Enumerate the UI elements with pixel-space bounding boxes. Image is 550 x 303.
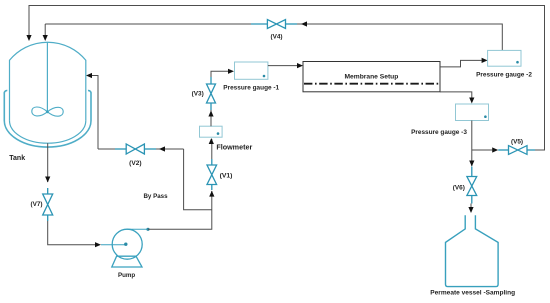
wire tank bottom outlet to V7 [47,143,49,182]
wire arrow into membrane (pointing right) [297,63,303,68]
wire pressure gauge 1 to membrane [268,65,297,67]
wire V6 to permeate vessel [470,204,472,208]
valve V4 [251,20,297,29]
svg-text:(V5): (V5) [511,138,523,145]
wire membrane to pressure gauge 2 [440,60,482,67]
svg-text:(V7): (V7) [30,201,42,208]
pressure gauge PG1 [235,62,268,79]
wire V1 to flowmeter [211,139,213,159]
wire arrow into pump (pointing right) [95,242,101,247]
wire top return loop (V5 outlet to tank) [29,6,545,151]
tank T1 [4,42,91,147]
svg-text:By Pass: By Pass [143,193,168,200]
svg-text:Permeate vessel -Sampling: Permeate vessel -Sampling [430,289,515,296]
wire arrow into pressure gauge 3 (pointing down) [469,98,474,104]
wire pressure gauge 3 down to junction [471,121,473,151]
svg-text:Pressure gauge -3: Pressure gauge -3 [411,129,467,136]
membrane setup M1 [303,62,440,92]
wire arrow into flowmeter (pointing up) [209,138,214,144]
agitator propeller [32,107,63,116]
wire arrow on V2 line (pointing left) [159,146,165,151]
svg-text:Pump: Pump [118,272,135,279]
pump center dot [124,243,127,246]
wire junction to V5 [472,149,492,151]
agitator shaft [46,42,48,112]
wire tank side inlet from V2 [92,76,98,150]
wire arrow above V6 (pointing down) [469,161,474,167]
svg-text:Pressure gauge -2: Pressure gauge -2 [476,71,532,78]
flowmeter FM1 [200,126,223,137]
wire flowmeter to V3 [210,110,212,126]
valve V7 [43,188,53,221]
permeate vessel PV1 [446,215,499,286]
wire arrow into tank top (left) [26,35,31,41]
pressure gauge PG3 [456,104,489,121]
svg-text:(V6): (V6) [453,185,465,192]
valve V3 [207,77,216,110]
svg-text:(V3): (V3) [192,90,204,97]
pressure gauge PG2 [488,50,521,66]
svg-text:(V2): (V2) [129,160,141,167]
node pump outlet dot [146,228,149,231]
wire membrane to pressure gauge 3 [440,92,472,98]
svg-text:(V4): (V4) [270,34,282,41]
wire arrow on V4 line (pointing left) [301,21,307,26]
wire arrow above V7 (pointing down) [45,177,50,183]
wire junction down to V6 [471,150,473,166]
wire arrow into pressure gauge 1 (pointing right) [228,69,234,74]
wire bypass vertical and to riser [184,149,212,210]
wire pump inlet shaft [101,244,127,246]
svg-text:Flowmeter: Flowmeter [216,143,252,152]
svg-text:(V1): (V1) [220,172,233,179]
wire arrow into tank top (right) [43,35,48,41]
wire V3 to pressure gauge 1 [211,71,228,77]
valve V1 [207,159,217,190]
svg-text:Pressure gauge -1: Pressure gauge -1 [223,84,279,91]
wire pump outlet [127,228,148,230]
wire arrow above flowmeter (pointing up) [208,111,213,117]
wire arrow into V5 (pointing right) [492,147,498,152]
wire V7 to pump inlet [48,221,95,245]
wire pump outlet to riser [148,191,212,229]
pump P1 [112,229,142,267]
svg-text:Membrane Setup: Membrane Setup [344,74,398,81]
wire arrow into pressure gauge 2 (pointing right) [482,58,488,63]
wire arrow into tank right side [86,73,92,78]
wire V4 return line (PG2 top to tank) [45,24,502,50]
agitator hub dot [46,110,49,113]
wire arrow into vessel (pointing down) [468,207,473,213]
svg-text:Tank: Tank [9,155,25,162]
wire arrow below V1 (pointing up) [209,191,214,197]
wire V2 bypass line [98,148,184,150]
valve V2 [115,144,156,154]
valve V6 [467,167,477,204]
valve V5 [498,146,535,155]
